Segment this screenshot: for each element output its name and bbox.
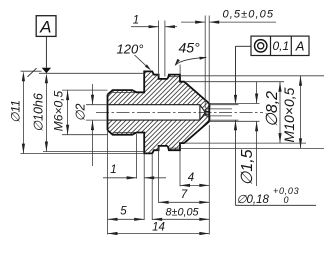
svg-text:M10×0,5: M10×0,5 (281, 87, 297, 142)
svg-text:0,1: 0,1 (272, 39, 289, 53)
svg-text:0: 0 (284, 195, 289, 205)
svg-text:∅10h6: ∅10h6 (32, 93, 46, 132)
svg-text:∅0,18: ∅0,18 (237, 194, 270, 206)
svg-text:120°: 120° (117, 42, 144, 57)
svg-text:∅11: ∅11 (9, 100, 23, 123)
svg-text:M6×0,5: M6×0,5 (52, 90, 66, 131)
svg-text:0,5±0,05: 0,5±0,05 (223, 9, 275, 21)
svg-text:A: A (295, 39, 305, 54)
svg-text:∅8,2: ∅8,2 (264, 91, 281, 127)
svg-text:45°: 45° (179, 40, 201, 56)
svg-text:5: 5 (120, 206, 127, 218)
svg-text:14: 14 (152, 222, 165, 234)
svg-text:∅2: ∅2 (74, 104, 88, 122)
svg-text:1: 1 (133, 15, 139, 27)
svg-text:8±0,05: 8±0,05 (166, 207, 200, 219)
svg-text:∅1,5: ∅1,5 (239, 149, 256, 185)
svg-text:4: 4 (188, 172, 194, 184)
svg-text:A: A (39, 18, 51, 37)
svg-text:7: 7 (181, 189, 188, 201)
svg-text:1: 1 (110, 164, 116, 176)
